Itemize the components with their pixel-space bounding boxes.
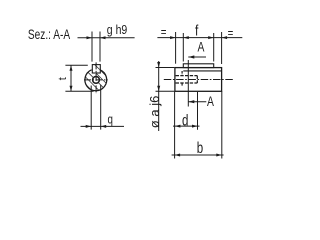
section arrow top	[188, 56, 206, 58]
t dimension	[65, 64, 87, 66]
svg-text:b: b	[197, 138, 204, 156]
svg-text:A: A	[198, 39, 206, 55]
key on top	[183, 64, 213, 68]
section cut line A-A	[187, 60, 189, 107]
outer circle (hub OD) with keyway gap	[85, 70, 107, 91]
svg-text:d: d	[182, 110, 188, 128]
labels = f =	[161, 26, 167, 40]
part outline	[175, 68, 222, 92]
svg-text:ø a j6: ø a j6	[147, 96, 162, 129]
g dimension extension lines	[91, 32, 93, 62]
q dimension extension lines	[90, 86, 92, 130]
label q	[108, 113, 113, 127]
svg-text:A: A	[207, 93, 215, 109]
label t (rotated)	[57, 77, 69, 80]
label g h9	[107, 22, 128, 37]
top dimension row: = f =	[175, 32, 177, 64]
svg-text:g h9: g h9	[107, 22, 128, 37]
svg-text:=: =	[228, 27, 234, 41]
svg-text:Sez.: A-A: Sez.: A-A	[28, 27, 70, 43]
vertical centerline	[95, 62, 97, 94]
b dimension	[174, 91, 176, 158]
section title Sez.: A-A	[28, 27, 70, 43]
svg-text:f: f	[195, 22, 199, 39]
svg-text:q: q	[108, 113, 113, 127]
svg-text:=: =	[161, 26, 167, 40]
hatching	[74, 44, 122, 121]
q dimension line	[81, 125, 125, 127]
horizontal centerline	[84, 79, 108, 81]
svg-text:t: t	[57, 77, 69, 80]
g dimension line	[78, 37, 135, 39]
inner bore circle	[93, 77, 100, 84]
diameter dimension (ø a j6)	[156, 67, 175, 69]
key seat line	[183, 70, 221, 72]
keyway / key rect	[92, 65, 100, 73]
d dimension	[197, 92, 199, 130]
section arrow bottom	[188, 101, 206, 103]
centerline	[164, 79, 234, 81]
hidden bore lines	[176, 75, 198, 77]
